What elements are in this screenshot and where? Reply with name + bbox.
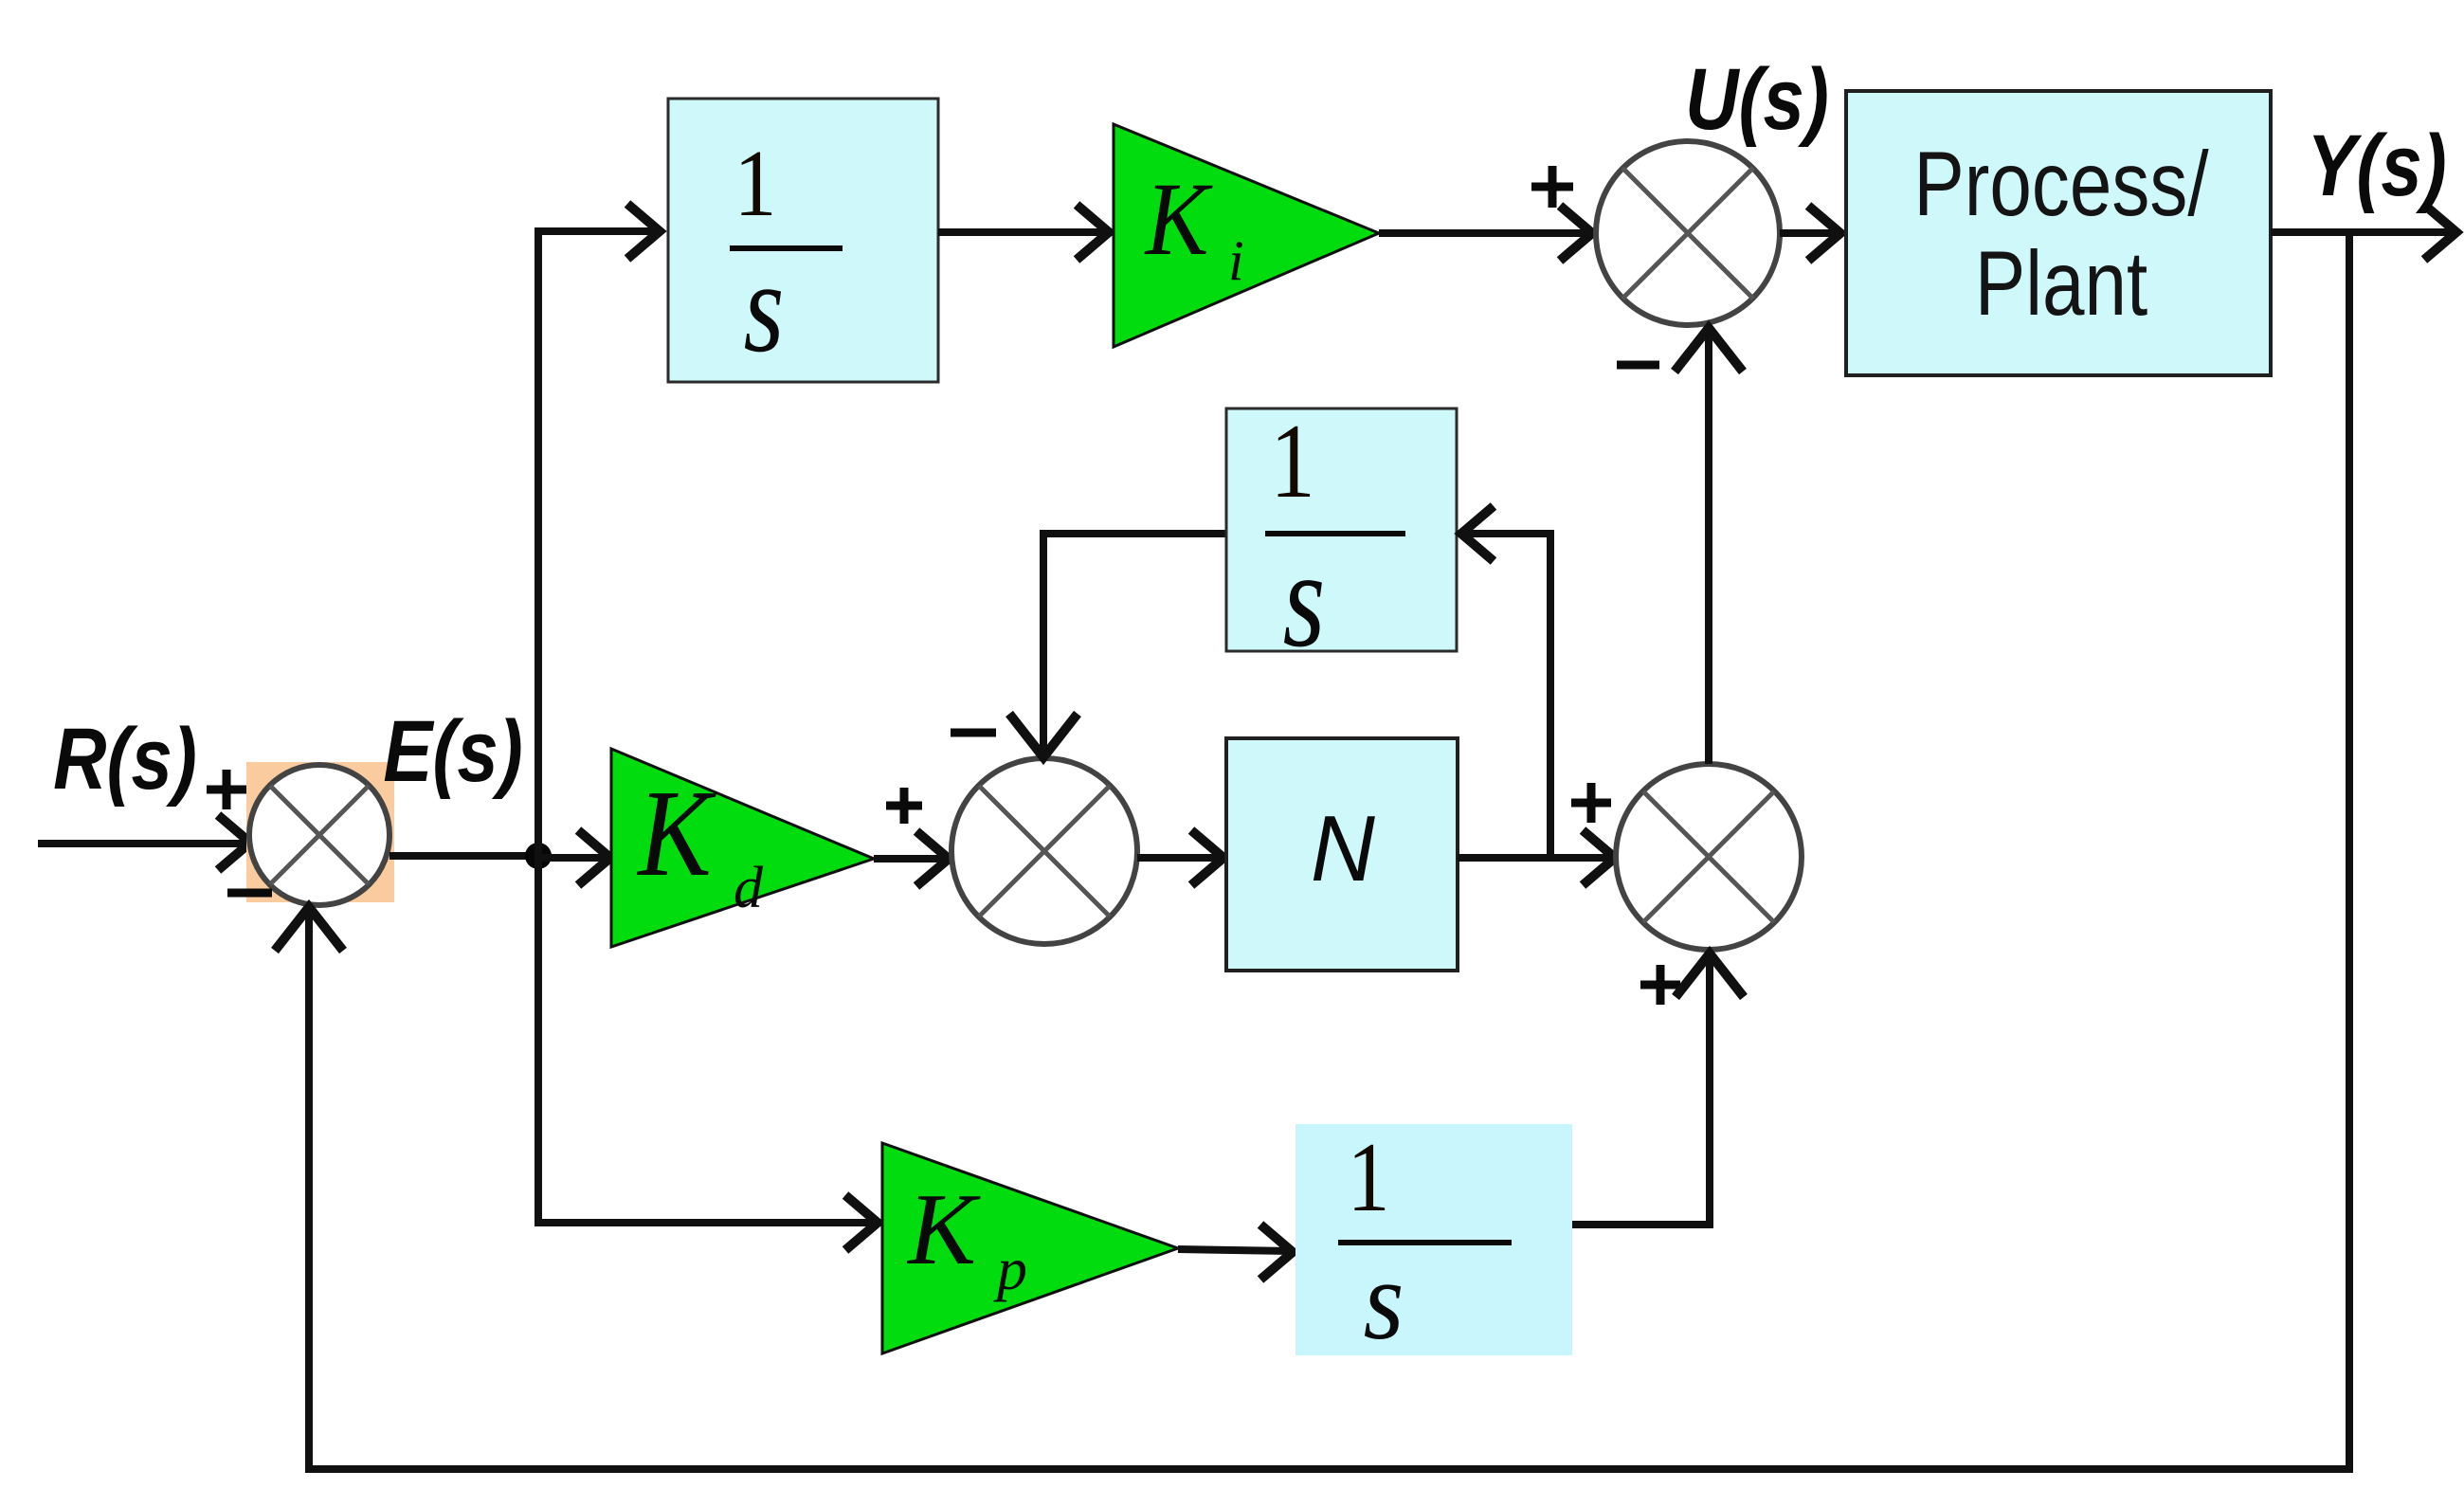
gain Kd label: [636, 765, 764, 920]
svg-text:s: s: [744, 234, 785, 378]
integrator I1 value 1/s: [730, 130, 842, 378]
svg-text:s: s: [1364, 1237, 1404, 1363]
node E(s) label: [383, 703, 522, 800]
wire I1 to gain Ki: [938, 205, 1109, 260]
integrator I3 value 1/s: [1338, 1123, 1512, 1364]
integrator I2 value 1/s: [1265, 403, 1405, 676]
wire I3 up into summer S4 bottom: [1572, 953, 1744, 1225]
svg-text:E(s): E(s): [383, 703, 522, 800]
block plant Process/Plant: [1846, 91, 2271, 375]
gain Ki label: [1144, 161, 1244, 292]
wire from N output junction up into I2: [1461, 506, 1550, 858]
wire S4 up into S2: [1675, 328, 1743, 764]
wire R(s) input: [38, 815, 252, 870]
svg-text:1: 1: [1270, 403, 1315, 520]
node plus sign at summer S3: [886, 788, 922, 824]
summer S1: [249, 765, 390, 905]
wire arrow into integrator I1: [627, 204, 660, 259]
svg-text:1: 1: [734, 130, 776, 236]
node minus sign above summer S3: [951, 729, 996, 737]
block N: [1226, 738, 1458, 971]
node plus sign at summer S2: [1531, 166, 1573, 208]
svg-text:U(s): U(s): [1685, 51, 1829, 148]
gain Kp triangle: [882, 1143, 1178, 1353]
wire feedback loop from Y tap to summer S1: [275, 232, 2349, 1469]
summer S1 highlight square: [246, 762, 394, 902]
svg-text:d: d: [734, 856, 764, 920]
summer S4: [1616, 764, 1802, 950]
block N label: [1311, 797, 1375, 901]
svg-text:i: i: [1228, 229, 1244, 292]
wire E(s): [390, 852, 538, 860]
integrator I3 box 1/s: [1295, 1124, 1572, 1355]
wire Kp to integrator I3: [1178, 1225, 1293, 1280]
wire S3 to block N: [1137, 830, 1223, 885]
wire Kp branch arrow: [845, 1195, 878, 1250]
gain Ki triangle: [1114, 124, 1379, 347]
node U(s) label: [1685, 51, 1829, 148]
wire N to summer S4: [1458, 830, 1615, 885]
gain Kp label: [906, 1173, 1027, 1302]
svg-text:1: 1: [1348, 1123, 1390, 1233]
wire Ki to summer S2: [1379, 206, 1592, 261]
node Y(s) label: [2307, 118, 2446, 214]
node R(s) label: [53, 711, 197, 808]
svg-text:s: s: [1283, 523, 1326, 676]
summer S3: [951, 758, 1137, 944]
wire plant output Y(s): [2271, 205, 2456, 260]
node minus sign at summer S1: [227, 889, 272, 898]
node E junction dot: [525, 843, 552, 869]
integrator I1 box 1/s: [668, 99, 938, 382]
wire vertical trunk with top branch and bottom branch: [538, 231, 876, 1223]
svg-text:K: K: [636, 765, 716, 902]
svg-text:R(s): R(s): [53, 711, 197, 808]
svg-text:K: K: [906, 1173, 981, 1286]
svg-text:Plant: Plant: [1975, 232, 2148, 335]
gain Kd triangle: [611, 749, 874, 947]
node plus sign at summer S4 left: [1571, 783, 1611, 823]
svg-text:N: N: [1311, 797, 1375, 901]
block plant label: [1913, 133, 2208, 335]
svg-text:Process/: Process/: [1913, 133, 2208, 235]
summer S2 U(s) junction: [1596, 141, 1780, 325]
node minus sign at summer S2: [1617, 361, 1659, 370]
svg-text:p: p: [993, 1235, 1027, 1302]
svg-text:K: K: [1144, 161, 1213, 277]
node plus sign at summer S4 bottom: [1640, 965, 1680, 1005]
wire feedback from I2 into summer S3 top: [1009, 534, 1226, 757]
wire S2 to plant: [1780, 206, 1840, 261]
svg-text:Y(s): Y(s): [2307, 118, 2446, 214]
wire node E to gain Kd: [538, 854, 608, 862]
wire Kd to summer S3: [874, 831, 949, 886]
integrator I2 box 1/s: [1226, 409, 1457, 651]
node plus sign at summer S1: [207, 770, 246, 809]
